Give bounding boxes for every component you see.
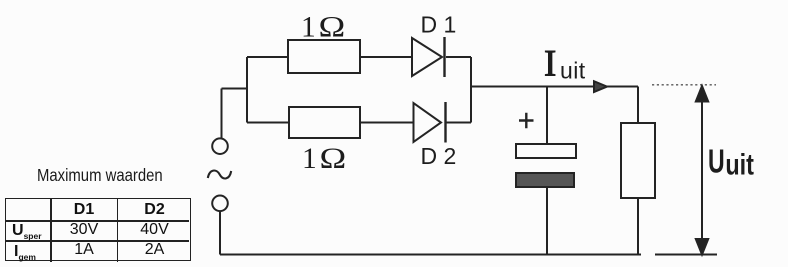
svg-text:U: U xyxy=(708,143,725,180)
svg-text:uit: uit xyxy=(560,58,586,84)
svg-text:uit: uit xyxy=(725,148,754,181)
svg-text:Ω: Ω xyxy=(320,143,347,175)
svg-text:1: 1 xyxy=(302,143,317,175)
svg-text:D 1: D 1 xyxy=(421,12,457,38)
svg-text:D 2: D 2 xyxy=(421,143,457,169)
svg-text:I: I xyxy=(544,44,556,85)
svg-text:Ω: Ω xyxy=(319,11,346,43)
svg-text:1: 1 xyxy=(301,11,316,43)
